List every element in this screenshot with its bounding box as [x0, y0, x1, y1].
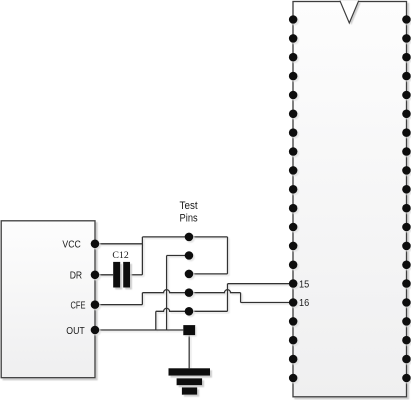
U1 pin 17 [289, 317, 298, 326]
wire cap-net vertical [141, 237, 143, 275]
U1 pin 9 [289, 166, 298, 175]
svg-text:16: 16 [299, 298, 309, 309]
svg-text:CFE: CFE [71, 300, 86, 311]
wire CFE stub [95, 304, 142, 306]
U1 pin 10 [289, 185, 298, 194]
U1 pin 38 [402, 53, 411, 62]
U1 right pin dots [402, 15, 411, 382]
U1 pin 15 [289, 279, 298, 288]
test pin 3 [185, 270, 194, 279]
svg-text:C12: C12 [112, 251, 129, 261]
svg-text:OUT: OUT [66, 326, 85, 337]
U1 pin 12 [289, 223, 298, 232]
wire loop vertical pin1-pin3 [227, 237, 229, 274]
wire VCC stub [95, 243, 142, 245]
wire test pin 3 row [189, 273, 228, 275]
U1 pin 20 [289, 374, 298, 383]
wire test pin 1 row [142, 236, 227, 238]
U1 pin 3 [289, 53, 298, 62]
U1 pin 6 [289, 110, 298, 119]
U1 notch [340, 1, 359, 23]
wire test pin 4 row left (hop) [142, 290, 189, 293]
U1 pin 27 [402, 261, 411, 270]
wire pin16 jog vertical [240, 293, 242, 303]
U1 pin 32 [402, 166, 411, 175]
U1 pin 31 [402, 185, 411, 194]
U1 pin 18 [289, 336, 298, 345]
svg-text:15: 15 [299, 279, 309, 290]
test pin 5 [185, 307, 194, 316]
svg-text:Pins: Pins [180, 213, 199, 225]
test pin 2 [185, 251, 194, 260]
wire to U1 pin 16 [241, 302, 294, 304]
wire OUT to pin5 vertical [155, 311, 157, 330]
wire C12 right lead [130, 274, 142, 276]
U1 pin 30 [402, 204, 411, 213]
test pin 6 square pad [183, 325, 195, 335]
U1 pin 28 [402, 242, 411, 251]
U1 pin 8 [289, 147, 298, 156]
left device body [1, 221, 95, 378]
IC U1 body [293, 2, 407, 397]
U1 pin 7 [289, 128, 298, 137]
test pin 1 [185, 233, 194, 242]
U1 pin 37 [402, 72, 411, 81]
wire pin15 vertical [227, 284, 229, 312]
U1 pin 35 [402, 110, 411, 119]
wire test pin 4 row right (hop) [189, 290, 241, 293]
svg-text:DR: DR [70, 271, 82, 282]
pin OUT [91, 326, 100, 335]
wire DR lead [95, 274, 113, 276]
svg-text:Test: Test [180, 200, 198, 212]
capacitor C12 [113, 262, 130, 288]
U1 pin 1 [289, 15, 298, 24]
U1 pin 25 [402, 298, 411, 307]
U1 pin 26 [402, 279, 411, 288]
U1 pin 5 [289, 91, 298, 100]
wire OUT row [95, 329, 183, 331]
U1 pin 36 [402, 91, 411, 100]
test pins dots [183, 233, 195, 336]
U1 pin 19 [289, 355, 298, 364]
U1 pin 33 [402, 147, 411, 156]
wires [95, 237, 293, 368]
U1 pin 21 [402, 374, 411, 383]
pin VCC [91, 240, 100, 249]
U1 pin 29 [402, 223, 411, 232]
U1 pin 40 [402, 15, 411, 24]
wire test pin 2 row [167, 255, 189, 257]
U1 pin 2 [289, 34, 298, 43]
wire to U1 pin 15 [228, 283, 294, 285]
pin CFE [91, 300, 100, 309]
U1 pin 4 [289, 72, 298, 81]
U1 pin 22 [402, 355, 411, 364]
U1 pin 13 [289, 242, 298, 251]
svg-text:VCC: VCC [62, 240, 81, 251]
left device pins VCC DR CFE OUT [91, 240, 100, 335]
U1 pin 11 [289, 204, 298, 213]
U1 left pin dots [289, 15, 298, 382]
U1 pin 39 [402, 34, 411, 43]
wire test pin 5 row (hop) [156, 308, 228, 311]
U1 pin 16 [289, 298, 298, 307]
U1 pin 14 [289, 261, 298, 270]
U1 pin 24 [402, 317, 411, 326]
pin DR [91, 271, 100, 280]
ground [169, 368, 211, 394]
wire ground lead [188, 335, 190, 368]
wire long vertical to OUT [166, 256, 168, 331]
U1 pin 34 [402, 128, 411, 137]
wire CFE elbow vertical [141, 293, 143, 305]
U1 pin 23 [402, 336, 411, 345]
test pin 4 [185, 288, 194, 297]
